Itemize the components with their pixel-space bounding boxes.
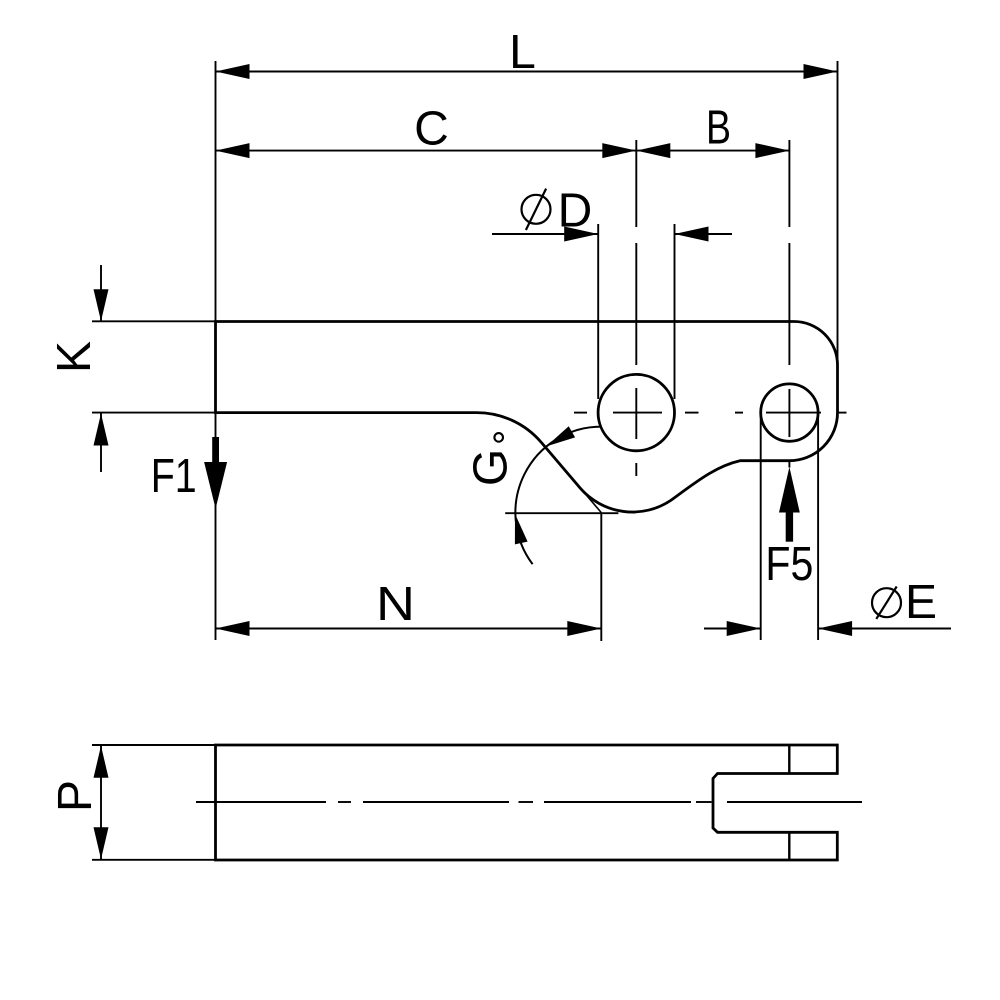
dimension dia D: [492, 185, 732, 400]
side view centerline: [196, 801, 862, 803]
dimension C: [216, 103, 637, 159]
svg-text:K: K: [48, 341, 101, 373]
dimension dia E: [704, 414, 951, 640]
side view hole line top prong: [788, 745, 790, 774]
dimension L: [216, 26, 838, 79]
centerline vertical hole E: [788, 140, 790, 437]
extension line right (x=837.5): [837, 61, 839, 365]
dimension P: [49, 745, 216, 860]
centerline vertical hole D: [635, 140, 637, 476]
angle G annotation: [465, 426, 619, 564]
dimension K: [48, 265, 216, 472]
svg-text:N: N: [376, 578, 415, 631]
dimension N: [216, 513, 602, 641]
svg-text:F5: F5: [765, 538, 813, 591]
svg-text:C: C: [414, 103, 449, 156]
part outline (top view lever plate): [216, 322, 838, 513]
svg-text:B: B: [706, 102, 731, 155]
force arrow F5: [765, 461, 813, 592]
side view hole line bottom prong: [788, 832, 790, 860]
dimension B: [636, 102, 789, 159]
hole D (left large hole): [598, 374, 674, 450]
svg-text:F1: F1: [151, 450, 197, 503]
svg-text:G: G: [465, 449, 518, 486]
side view outline: [216, 745, 838, 860]
svg-text:D: D: [558, 185, 593, 238]
svg-text:L: L: [509, 26, 536, 79]
centerline horizontal through holes: [574, 412, 847, 414]
extension line left (x=215.5): [215, 61, 217, 640]
hole E (right small hole): [761, 384, 818, 441]
svg-text:E: E: [905, 576, 937, 629]
svg-text:P: P: [49, 780, 102, 812]
force arrow F1: [151, 437, 227, 509]
